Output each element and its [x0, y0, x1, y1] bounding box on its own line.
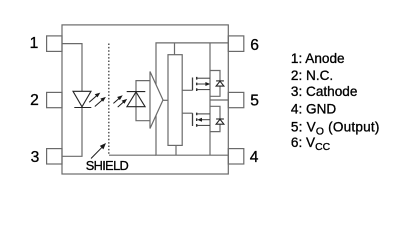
wire photodiode loop: [136, 81, 150, 121]
wire gate bottom mosfet: [182, 112, 192, 114]
svg-text:2: N.C.: 2: N.C.: [291, 68, 333, 83]
photodiode PD cathode bar: [127, 91, 146, 93]
shield pointer arrow: [91, 143, 106, 159]
pin 4 lead: [228, 149, 244, 164]
photodiode light arrow 2: [118, 99, 128, 107]
svg-text:4: 4: [250, 149, 259, 166]
bottom mosfet Q2 gate bar: [192, 113, 194, 126]
top mosfet Q1 gate bar: [192, 78, 194, 91]
top mosfet Q1 drain stub: [197, 77, 210, 79]
svg-text:SHIELD: SHIELD: [86, 158, 129, 173]
svg-text:3: 3: [31, 149, 40, 166]
top mosfet Q1 body arrow head: [205, 82, 210, 86]
bottom body diode D3: [216, 119, 224, 124]
svg-text:4: GND: 4: GND: [291, 102, 337, 117]
wire top diode anode return: [210, 86, 220, 96]
bottom mosfet Q2 body arrow head: [197, 118, 202, 122]
wire top body-diode branch: [210, 71, 220, 81]
top mosfet Q1 body arrow shaft: [197, 83, 207, 85]
bottom mosfet Q2 drain stub: [197, 113, 210, 115]
top mosfet Q1 channel segments: [196, 77, 198, 91]
wire anode: pin1 to LED: [62, 44, 82, 92]
svg-text:1: 1: [30, 35, 39, 52]
bottom mosfet Q2 source stub: [197, 124, 210, 126]
pin 3 lead: [47, 149, 62, 164]
wire vcc rail to output: [209, 43, 211, 100]
svg-text:2: 2: [30, 92, 39, 109]
wire gate top mosfet: [182, 89, 192, 91]
inner detector box: [156, 43, 228, 155]
photodiode light arrow 1: [113, 95, 122, 103]
svg-text:6: 6: [250, 37, 259, 54]
wire output to pin5: [210, 99, 228, 101]
wire bottom branch to diode: [210, 106, 220, 119]
LED D1 cathode bar: [74, 107, 91, 109]
wire amp output: [163, 99, 168, 101]
wire output rail to gnd: [209, 100, 211, 155]
pin 2 lead: [47, 92, 62, 107]
package outline: [62, 25, 228, 174]
pin 6 lead: [228, 36, 244, 52]
LED light arrow 2: [95, 97, 106, 107]
photodiode PD triangle: [127, 92, 145, 107]
svg-text:5: 5: [250, 93, 259, 110]
wire cathode: LED to pin3: [62, 108, 82, 157]
shield dotted line: [108, 44, 110, 155]
wire driver vcc stub: [174, 43, 176, 55]
top mosfet Q1 source stub: [197, 89, 210, 91]
svg-text:1: Anode: 1: Anode: [291, 51, 345, 66]
top body diode D2: [216, 81, 224, 86]
wire bottom diode anode return: [210, 124, 220, 131]
svg-text:3: Cathode: 3: Cathode: [291, 84, 358, 99]
LED light arrow 1: [89, 93, 100, 103]
pin 1 lead: [47, 36, 62, 52]
LED D1 triangle: [73, 91, 91, 107]
top body diode D2 cathode bar: [216, 80, 224, 82]
wire driver gnd stub: [175, 145, 177, 155]
pin 5 lead: [228, 92, 244, 107]
bottom mosfet Q2 body arrow shaft: [201, 119, 210, 121]
svg-text:6: VCC: 6: VCC: [291, 135, 331, 153]
bottom body diode D3 cathode bar: [216, 118, 224, 120]
driver block: [168, 55, 182, 146]
bottom mosfet Q2 channel segments: [196, 113, 198, 127]
amplifier U1: [150, 72, 163, 129]
wire shield-to-box bottom: [109, 154, 156, 156]
